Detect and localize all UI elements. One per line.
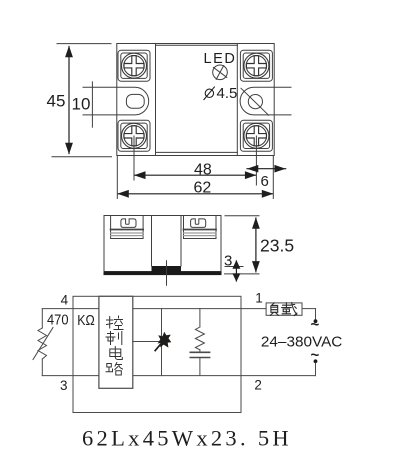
负 glyph — [270, 303, 278, 316]
电 glyph — [110, 347, 123, 360]
base plate (black) — [104, 272, 222, 276]
svg-text:24–380VAC: 24–380VAC — [261, 333, 343, 350]
left slot oval hole — [126, 94, 144, 108]
dim 23.5 arrow line — [255, 218, 257, 272]
载 glyph — [282, 303, 297, 316]
svg-text:48: 48 — [194, 162, 212, 179]
center section left line — [151, 216, 153, 267]
SSR outer box — [73, 296, 241, 412]
snubber branch wire top — [199, 309, 201, 327]
制 glyph — [106, 332, 122, 345]
dia 4.5 callout — [205, 89, 213, 97]
left mounting slot outline — [83, 87, 149, 115]
capacitor C1 plates — [190, 351, 209, 353]
varistor RV1 arrow stroke — [33, 328, 53, 360]
left terminal block — [111, 216, 144, 239]
main body top edge — [156, 44, 238, 46]
svg-text:470: 470 — [47, 313, 69, 329]
screw bottom-left — [118, 120, 150, 151]
right terminal block — [184, 216, 217, 239]
dim 45 extension top — [57, 43, 111, 45]
screw top-left — [118, 50, 150, 81]
load box (负载) — [266, 303, 302, 315]
screw bottom-right — [240, 120, 272, 151]
wire cap to rail — [199, 358, 201, 376]
wire terminal3 rail — [42, 375, 99, 377]
wire resistor to cap — [199, 350, 201, 353]
svg-text:23.5: 23.5 — [260, 235, 294, 255]
wire AC bottom to terminal2 — [315, 363, 317, 376]
leader line for hole dia — [241, 88, 269, 115]
dim 62 arrow line — [118, 193, 272, 195]
center heatsink black block — [152, 266, 182, 272]
dim 3 outward arrows — [235, 261, 237, 281]
body outline outer (incl. mounting flanges) — [117, 44, 274, 156]
resistor R1 (snubber) zigzag — [195, 327, 204, 350]
wire terminal2 external — [241, 375, 316, 377]
right clamp — [191, 219, 206, 228]
varistor RV1 zigzag — [38, 328, 47, 359]
dim 45 extension bottom — [52, 156, 112, 158]
main body bottom edge — [156, 151, 238, 153]
控 glyph — [107, 316, 124, 330]
AC terminal dot bottom — [314, 359, 318, 363]
svg-text:3: 3 — [60, 378, 68, 393]
svg-text:3: 3 — [224, 253, 232, 270]
dim 48 arrow line — [135, 174, 255, 176]
svg-text:45: 45 — [47, 92, 66, 111]
gate wire — [133, 341, 162, 343]
svg-text:1: 1 — [255, 290, 263, 305]
svg-text:~: ~ — [311, 317, 320, 334]
right flange/body divider — [236, 44, 238, 156]
right mounting slot outline — [240, 87, 291, 115]
triac Q1 — [155, 332, 171, 351]
right block band lines — [184, 229, 217, 231]
wire load to AC top — [302, 308, 316, 310]
dim 23.5 ext bottom — [225, 273, 260, 275]
dim 48 ext left (screw centerline) — [133, 136, 135, 180]
center section right line — [180, 216, 182, 267]
center mark line below — [166, 261, 168, 286]
路 glyph — [106, 363, 123, 376]
svg-text:KΩ: KΩ — [77, 313, 95, 329]
varistor branch wires — [41, 309, 43, 328]
dim 48 ext right (screw centerline) — [255, 136, 257, 185]
svg-text:4.5: 4.5 — [217, 85, 238, 102]
wire terminal4 rail — [42, 308, 99, 310]
left flange/body divider — [155, 44, 157, 156]
dim 23.5 ext top — [225, 215, 259, 217]
left clamp — [121, 219, 136, 228]
svg-text:62Lx45Wx23. 5H: 62Lx45Wx23. 5H — [82, 426, 292, 451]
side body outline — [104, 216, 221, 272]
dim 10 line — [91, 82, 93, 127]
dim 45 arrow line — [68, 47, 70, 154]
dim 6 outward arrows — [247, 168, 286, 170]
dim 62 ext right — [272, 156, 274, 199]
dim 3 ext line — [225, 266, 243, 268]
AC terminal dot top — [314, 319, 318, 323]
dim 62 ext left — [116, 156, 118, 199]
control circuit box U1 (控制电路) — [99, 296, 133, 388]
svg-text:10: 10 — [72, 95, 91, 114]
svg-text:4: 4 — [61, 293, 69, 308]
wire triac branch — [161, 309, 163, 376]
right slot round hole 4.5 — [248, 95, 262, 109]
left block band lines — [111, 229, 144, 231]
svg-text:2: 2 — [254, 377, 262, 392]
LED indicator symbol — [213, 65, 228, 80]
svg-text:6: 6 — [261, 173, 269, 190]
screw top-right — [240, 50, 272, 81]
svg-text:62: 62 — [194, 180, 212, 197]
